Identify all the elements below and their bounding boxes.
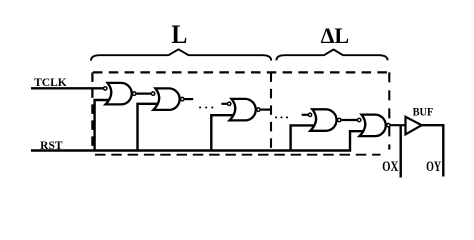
G5 output bubble (387, 124, 390, 127)
wire G1 input2 from RST (95, 100, 110, 151)
wire G3 in stub (221, 103, 229, 105)
wire G2 out stub (183, 98, 194, 100)
dashed box right edge (388, 72, 390, 149)
svg-text:OX: OX (382, 159, 399, 175)
wire G4 out to G5 in (340, 119, 359, 121)
svg-text:ΔL: ΔL (321, 23, 350, 48)
wire G3 input2 from RST (211, 115, 233, 150)
dots between G2 and G3 (199, 106, 201, 108)
G5 input bubble (358, 118, 361, 121)
wire G4 input2 from RST (291, 125, 315, 150)
wire OX branch (400, 125, 402, 177)
svg-text:BUF: BUF (413, 105, 434, 118)
G3 output bubble (257, 108, 260, 111)
wire G3 out stub (260, 108, 271, 110)
dashed box top edge (93, 71, 389, 73)
G1 input bubble (104, 87, 107, 90)
dashed box bottom edge (95, 154, 381, 156)
wire G1 out to G2 in (134, 92, 153, 94)
svg-text:TCLK: TCLK (34, 75, 67, 89)
svg-text:OY: OY (426, 159, 441, 175)
wire G2 input2 from RST (138, 104, 159, 151)
svg-text:L: L (171, 19, 187, 49)
gate G5 (360, 115, 386, 137)
G4 output bubble (338, 118, 341, 121)
RST wire (31, 149, 351, 151)
G3 input bubble (228, 102, 231, 105)
gate G1 (106, 83, 132, 105)
buffer U1 triangle (406, 117, 422, 135)
gate G4 (310, 109, 336, 131)
dashed divider between L and deltaL (270, 72, 272, 154)
TCLK wire (31, 87, 104, 89)
wire OY branch (442, 125, 444, 176)
wire buffer out (421, 124, 444, 126)
G2 input bubble (151, 92, 154, 95)
wire G5 out to buffer (387, 124, 406, 126)
wire G4 in stub (302, 114, 309, 116)
G2 output bubble (181, 97, 184, 100)
G1 output bubble (133, 92, 136, 95)
wire G5 input2 from RST end (350, 131, 364, 150)
gate G2 (153, 88, 179, 110)
brace under L (91, 49, 271, 60)
gate G3 (230, 99, 256, 121)
brace under deltaL (276, 50, 387, 61)
dots between G3 and G4 (275, 116, 277, 118)
G4 input bubble (308, 113, 311, 116)
dashed box left edge (91, 72, 93, 151)
